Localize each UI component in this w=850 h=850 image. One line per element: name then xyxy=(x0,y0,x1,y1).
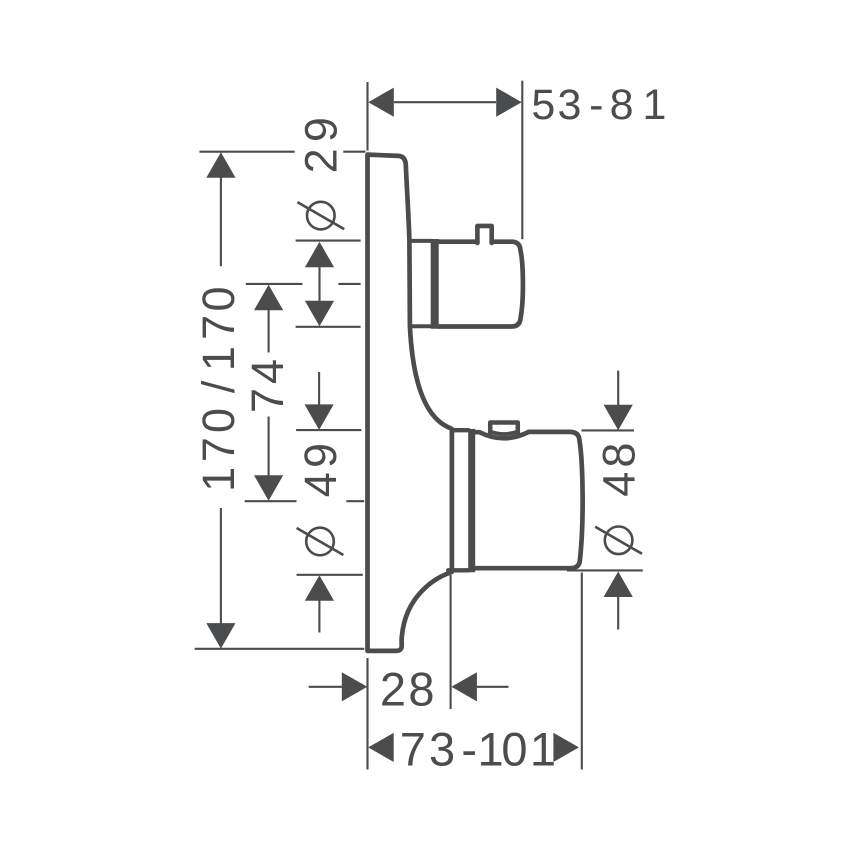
top knob centerline right segment (74) xyxy=(338,283,360,285)
arrow 53-81 right xyxy=(496,88,522,117)
dimension 49 lower shaft xyxy=(318,600,320,633)
dimension 170/170 lower shaft xyxy=(220,508,222,624)
extension line sleeve back (28) xyxy=(450,575,452,709)
arrow dia 29 down xyxy=(305,301,334,327)
extension line bottom knob upper right (dia 48) xyxy=(582,429,635,431)
diameter symbol for 48 xyxy=(605,527,633,555)
arrow 28 right xyxy=(451,672,477,701)
dimension 74 lower shaft xyxy=(268,417,270,476)
svg-text:53-81: 53-81 xyxy=(531,81,666,129)
arrow 170/170 up xyxy=(206,152,235,178)
arrow 170/170 down xyxy=(206,623,235,649)
arrow 53-81 left xyxy=(368,88,394,117)
extension line plate top left segment (170/170) xyxy=(200,151,295,153)
extension line plate top right segment (170/170) xyxy=(343,151,365,153)
extension line bottom knob upper (49) xyxy=(296,429,361,431)
top knob grip tab xyxy=(477,226,491,243)
arrow dia 29 up xyxy=(305,242,334,267)
dimension 28 right arrow tail xyxy=(477,686,509,688)
extension line bottom knob lower right (dia 48) xyxy=(567,569,643,571)
dimension dia 48 lower shaft xyxy=(617,597,619,630)
top knob centerline left segment (74) xyxy=(246,283,303,285)
bottom knob centerline right segment (74) xyxy=(346,500,364,502)
extension line plate bottom (170/170) xyxy=(195,648,365,650)
dimension dia 29 shaft xyxy=(318,267,320,302)
extension line bottom knob face (73-101) xyxy=(581,573,583,770)
extension line bottom knob lower (49) xyxy=(297,574,363,576)
extension line left of plate top (53-81) xyxy=(366,82,368,151)
diameter symbol for 49 xyxy=(306,528,334,556)
bottom knob grip tab xyxy=(490,423,518,434)
dimension dia 48 upper shaft xyxy=(617,371,619,405)
arrow 49 down xyxy=(305,404,334,430)
escutcheon plate profile xyxy=(368,155,452,651)
top knob sleeve upper line xyxy=(409,239,431,243)
arrow dia 48 down xyxy=(604,405,633,431)
svg-text:170/170: 170/170 xyxy=(193,286,244,491)
dimension 170/170 upper shaft xyxy=(220,177,222,266)
dimension 28 left arrow tail xyxy=(309,686,343,688)
bottom knob back ring xyxy=(468,429,475,572)
dimension 49 upper shaft xyxy=(318,372,320,405)
svg-text:73-101: 73-101 xyxy=(400,722,556,775)
arrow 74 down xyxy=(254,475,283,501)
bottom knob sleeve upper line xyxy=(452,428,469,432)
arrow dia 48 up xyxy=(604,572,633,598)
extension line top knob upper (dia 29) xyxy=(296,240,361,242)
bottom knob body with grip groove xyxy=(476,432,583,568)
dimension 74 upper shaft xyxy=(268,310,270,353)
diameter symbol for 29 xyxy=(307,202,335,230)
top knob body xyxy=(439,242,523,327)
bottom knob sleeve lower line xyxy=(448,568,468,572)
bottom knob tab base curve xyxy=(490,432,518,434)
extension line at top knob face (53-81) xyxy=(521,81,523,240)
bottom knob centerline left segment (74) xyxy=(245,500,297,502)
top knob sleeve lower line xyxy=(410,324,431,328)
extension line top knob lower (dia 29) xyxy=(296,326,361,328)
dimension line 53-81 xyxy=(394,101,496,103)
arrow 73-101 left xyxy=(368,733,394,762)
arrow 49 up xyxy=(305,575,334,601)
arrow 74 up xyxy=(254,285,283,311)
arrow 73-101 right xyxy=(553,733,579,762)
top knob back ring xyxy=(431,239,439,329)
extension line plate left bottom (28 / 73-101) xyxy=(366,658,368,770)
arrow 28 left xyxy=(342,672,368,701)
